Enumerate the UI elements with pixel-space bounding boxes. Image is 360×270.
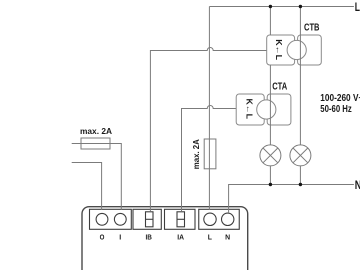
svg-text:L: L: [208, 233, 213, 242]
svg-text:N: N: [355, 180, 360, 192]
svg-text:N: N: [225, 233, 230, 242]
svg-text:K←L: K←L: [245, 99, 254, 120]
svg-text:max. 2A: max. 2A: [80, 126, 112, 136]
svg-text:K←L: K←L: [274, 39, 283, 60]
svg-text:IA: IA: [177, 233, 184, 242]
svg-text:I: I: [119, 233, 121, 242]
svg-text:L: L: [355, 2, 360, 14]
svg-text:IB: IB: [146, 233, 153, 242]
svg-text:50-60 Hz: 50-60 Hz: [320, 103, 352, 115]
svg-text:max. 2A: max. 2A: [191, 139, 201, 169]
svg-text:CTB: CTB: [304, 23, 320, 34]
svg-text:CTA: CTA: [272, 81, 287, 92]
svg-text:O: O: [100, 233, 105, 242]
